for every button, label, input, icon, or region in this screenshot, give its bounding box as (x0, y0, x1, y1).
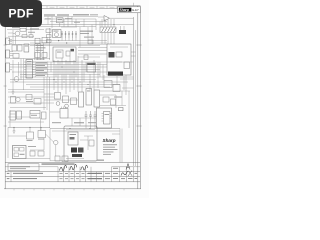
wire drop x56 (55, 16, 57, 17)
pin col line a (34, 62, 36, 78)
resistor R10 (38, 131, 46, 138)
wire y160.5 (50, 160, 96, 162)
pin drop s5 (67, 62, 69, 75)
tb note text (42, 163, 75, 164)
label mid row2 (52, 122, 61, 123)
pin label row 4 (36, 70, 44, 71)
wire bundle x40 (40, 44, 42, 61)
tb drawing no (88, 173, 102, 174)
ic U17 dark (78, 148, 84, 153)
tb cell texts row2 d (76, 177, 79, 180)
wire drop x114 (113, 19, 115, 27)
wire y112 mid (50, 111, 60, 113)
wire drop x52 (51, 16, 53, 28)
resistor R17 (34, 99, 41, 105)
tb col x58 (57, 167, 59, 182)
connector CN1 (57, 18, 64, 23)
wire y57 right (78, 56, 100, 58)
wire x120 low (119, 129, 121, 163)
pin drop s1 (50, 62, 52, 72)
wire bottom link (26, 158, 50, 160)
wire x10 low (9, 110, 11, 127)
node J6 (29, 127, 30, 128)
ic U15 (68, 132, 78, 145)
ic U12 (94, 90, 100, 107)
module box B1 (107, 44, 131, 75)
pin drop s8 (83, 65, 85, 83)
wire U3 out (110, 17, 134, 19)
U14 pins (62, 107, 66, 109)
top rev strip dividers (47, 6, 117, 9)
wire drop x100 (99, 22, 101, 28)
cluster C6 (111, 99, 116, 105)
tb col x126.5 (126, 167, 128, 182)
module box B2 (64, 126, 97, 161)
wire mid bus 1 (8, 40, 107, 42)
label under badge (12, 26, 20, 29)
CN4 pin3 (10, 69, 12, 71)
transistor Q7 (16, 97, 20, 101)
wire bundle x43 (43, 44, 45, 61)
wire y118 mid (68, 117, 96, 119)
resistor R4 (55, 93, 61, 100)
module box B4 (53, 30, 62, 38)
tb cell t2 (113, 173, 118, 174)
module box B5 (53, 47, 76, 62)
transistor Q6 (54, 140, 58, 144)
wire x26 vert top (26, 27, 28, 35)
B2 wire (84, 135, 93, 137)
node J9 (89, 128, 90, 129)
wire comb drop b (104, 33, 106, 45)
R9 label (27, 139, 33, 142)
wire U3 in (98, 16, 104, 18)
header logo fill (119, 8, 132, 12)
tb cell texts c121 r2 (121, 178, 125, 179)
signature S2 (70, 164, 77, 170)
label CN1 pins (58, 18, 63, 21)
wire hbus y77 (20, 76, 134, 78)
resistor R18 (47, 35, 52, 38)
tb row line b (5, 171, 140, 173)
ic U10 (79, 92, 84, 107)
wire x80 drop (79, 118, 81, 126)
tb col x133.5 (133, 167, 135, 182)
wire drop x111 (110, 19, 112, 27)
wire x40 down (40, 118, 42, 131)
Q2 row hatch (102, 28, 116, 33)
wire bundle x34 (34, 44, 36, 60)
pin drop s7 (75, 62, 77, 77)
pin drop s6 (71, 65, 73, 80)
label top extra b (65, 17, 72, 20)
wire cap drop c (94, 120, 96, 129)
diode D1 mark (61, 33, 63, 35)
wire vbus x54 (53, 60, 55, 90)
B2 wire 2 (87, 136, 89, 150)
TB1 label (20, 154, 25, 155)
node J8 (69, 128, 70, 129)
relay K1 (10, 111, 16, 120)
B2 inner wire a (66, 129, 95, 131)
CN2 pin 2 (10, 41, 12, 43)
maker address line4 (103, 151, 114, 154)
pin drop s10 (99, 62, 101, 77)
B5 inner ic label (57, 51, 62, 54)
wire y79 right (120, 78, 134, 80)
wire y136 left (8, 135, 26, 137)
U8 top strip (87, 63, 95, 65)
wire drop x64 (63, 19, 65, 27)
wire x129 down2 (128, 91, 130, 128)
transistor Q5 (65, 104, 69, 108)
diode D3 mark (68, 33, 70, 35)
tb cell t6 (135, 178, 138, 179)
B1 inner wire (110, 46, 128, 48)
tb small note (97, 160, 104, 161)
resistor R1 (20, 28, 26, 31)
tb row line a (5, 166, 58, 168)
wire bundle x37 (37, 44, 39, 60)
wire x21 left vert (20, 59, 22, 81)
U9 label2 (27, 63, 32, 66)
wire D drops (62, 38, 76, 41)
label tb1 side (28, 145, 36, 148)
relay K1 inner (10, 113, 16, 115)
tb cell texts row2 (60, 177, 63, 180)
label right mid (114, 97, 122, 98)
wire vbus x62 (61, 58, 63, 90)
wire x18 mid (18, 62, 20, 77)
capacitor C9 (89, 111, 92, 120)
tb text r1c2 (13, 173, 43, 174)
wire R1 right (26, 29, 44, 31)
wire drop x96 (95, 19, 97, 30)
wire vbus x58 (57, 60, 59, 92)
diode D5 (75, 31, 77, 38)
capacitor C7 (42, 112, 47, 119)
wire vbus x70 (69, 56, 71, 92)
tb cell t5 (135, 173, 138, 174)
wire CN1 drop (59, 23, 61, 27)
wire x47 down (46, 77, 48, 110)
tb cell t4 (128, 178, 133, 179)
node J5 (13, 127, 14, 128)
tb cell texts c98 r2 (98, 178, 102, 179)
capacitor C3 (42, 52, 47, 57)
ic U14 (60, 109, 68, 119)
wire right drop (115, 95, 117, 108)
crystal X1 (119, 108, 124, 111)
pin label row 5 (36, 72, 47, 73)
wire hbus y64.5 (12, 64, 107, 66)
U15 label (70, 134, 77, 135)
wire y105 right (100, 105, 126, 107)
R10 label (38, 138, 44, 141)
pin col line b (47, 62, 49, 78)
wire vert x80 top (79, 27, 81, 48)
wire vbus x66 (65, 60, 67, 94)
tb right row line (112, 166, 141, 168)
tb cell t1 (113, 168, 118, 169)
CN3 pin 2 (10, 53, 13, 55)
stamp text row2 (10, 167, 26, 170)
wire hbus y82 (10, 81, 128, 83)
bottom ticks (14, 189, 124, 191)
connector CN3 (6, 50, 10, 58)
transistor Q3 (14, 77, 19, 82)
B5 mark dark (71, 49, 75, 52)
svg-text:PDF: PDF (8, 7, 33, 21)
resistor R11 (55, 156, 60, 161)
U11 label (87, 90, 91, 93)
ground G1 (12, 90, 15, 94)
connector CN4 (6, 63, 10, 72)
label center row (74, 122, 84, 123)
wire top y19 (44, 18, 96, 20)
wire x44 low (43, 138, 45, 150)
resistor R16 (26, 95, 32, 100)
tb cell texts c105 r1 (105, 173, 110, 174)
CN2 pins (10, 39, 12, 41)
wire x13 mid (12, 60, 14, 90)
pin label row 3 (36, 67, 47, 68)
ic U16 dark (71, 148, 77, 153)
resistor R7 (104, 81, 112, 88)
label left bottom (26, 100, 33, 103)
wire vbus x74 (73, 60, 75, 90)
tb col x11 (10, 172, 12, 182)
transistor Q1 (15, 31, 20, 36)
ic U2 (24, 44, 29, 52)
tb sig col 1 (63, 167, 65, 182)
tb sig col 4 (79, 167, 81, 182)
stamp box (8, 164, 39, 171)
wire Q1 base (13, 33, 15, 35)
diode D2 mark (65, 33, 67, 35)
tb cell texts row1 c (71, 172, 74, 175)
wire y131 (52, 130, 120, 132)
frame tick right 3 (136, 125, 141, 127)
wire y50 right (78, 50, 107, 52)
U13 inner line (30, 113, 40, 115)
ic U11 (86, 89, 92, 106)
wire x122 down2 (121, 91, 123, 106)
tb cell texts row2 b (65, 177, 68, 180)
wire vert x13 (12, 30, 14, 44)
maker address line5 (103, 153, 111, 156)
U9 inner row c (26, 71, 33, 73)
capacitor C10 (94, 111, 97, 120)
FRAME (4, 6, 6, 189)
wire y107 (10, 107, 46, 109)
diode D3 (68, 31, 70, 38)
label mode row (30, 28, 39, 29)
wire hbus y84.5 (26, 84, 120, 86)
pin label row 2 (36, 65, 45, 66)
U13 label (31, 114, 37, 117)
ground G2 (13, 127, 16, 133)
ic U6 (116, 52, 122, 57)
connector CN2 (6, 38, 10, 45)
wire drop x68 (67, 16, 69, 27)
wire y47.5 right (78, 47, 107, 49)
diode D5 mark (75, 33, 77, 35)
pin drop s9 (85, 62, 87, 72)
label POWER (73, 14, 89, 15)
label top extra a (45, 17, 51, 20)
tb cell texts row2 c (71, 177, 74, 180)
svg-text:Sharp: Sharp (120, 8, 129, 12)
ic U8 (87, 63, 96, 72)
tb drawing no2 (88, 178, 102, 179)
U4 stub2 (123, 26, 125, 30)
frame tick left 3 (4, 125, 7, 127)
diode D4 mark (72, 33, 74, 35)
B2 inner wire b (80, 139, 88, 141)
wire y24.5 ext (107, 24, 134, 26)
wire vbus x94 (93, 60, 95, 90)
resistor R8 (113, 85, 120, 92)
capacitor C1 (88, 40, 93, 44)
tb text r2c2 (13, 178, 37, 179)
wire hbus y87 (30, 86, 110, 88)
wire y117 low (8, 116, 30, 118)
wire y89.5 (8, 89, 44, 91)
wire y54 right (78, 53, 107, 55)
wire y94 (44, 93, 55, 95)
module box B3 (97, 108, 112, 128)
pin drop s2 (55, 65, 57, 78)
ic U18 strip (72, 154, 82, 157)
wire vbus x98 (97, 62, 99, 88)
TB1 cell 2 (20, 148, 25, 152)
wire y91 right (100, 90, 130, 92)
node row d (80, 82, 81, 83)
stamp text (10, 166, 30, 167)
tb text r1c1 (7, 173, 10, 174)
maker address line1 (103, 143, 117, 146)
resistor R5 (63, 96, 69, 103)
arrow mark b (66, 42, 68, 44)
U2 label (25, 45, 28, 48)
tb col x111.5 (111, 167, 113, 182)
diode D1 (61, 31, 63, 38)
wire x44 down (43, 77, 45, 110)
node J2 (73, 71, 74, 72)
wire x49 down (49, 77, 51, 128)
node J3 (89, 81, 90, 82)
wire comb drop c (107, 33, 109, 45)
rev strip marks (50, 6, 115, 8)
transistor array Q2 row (100, 27, 116, 33)
node row a (56, 82, 57, 83)
resistor R9 (27, 132, 34, 139)
wire drop x105 (104, 19, 106, 27)
tb col x119.5 (119, 167, 121, 182)
arrow mark a (58, 40, 60, 42)
switch SW1 (17, 111, 22, 119)
U9 inner row a (26, 65, 33, 67)
capacitor C8 (85, 111, 88, 120)
wire y150 left (30, 149, 44, 151)
B2 inner wire c (66, 158, 84, 160)
resistor R12 (62, 156, 68, 162)
ic U19 (104, 112, 111, 125)
box cluster b5 (12, 45, 17, 51)
wire right link (100, 94, 116, 96)
wire x23.5 left vert (23, 59, 25, 91)
wire top bus 2 (8, 26, 96, 28)
wire x104 down (103, 75, 105, 81)
tb x mark (128, 171, 132, 177)
label D row values (80, 31, 93, 32)
node J4 (53, 79, 54, 80)
wire col x49 (49, 28, 51, 60)
TB1 cell 1 (14, 148, 19, 152)
frame centre tick top (133, 3, 135, 6)
ic U7 dark bar (108, 72, 123, 76)
tb cell texts row1 e (82, 172, 85, 175)
ic U9 tall (26, 60, 33, 79)
wire vbus x90 (89, 74, 91, 90)
B1 inner wire 2 (110, 61, 122, 63)
ic U13 (30, 111, 40, 119)
frame tick left 1 (4, 44, 7, 46)
transistor Q4 (56, 102, 60, 106)
CN3 pin 1 (10, 51, 13, 53)
wire hbus y72 (12, 71, 108, 73)
label under badge b (28, 31, 35, 34)
tb sig col 5 (85, 167, 87, 182)
wire drop x48 (47, 16, 49, 24)
node row c (72, 82, 73, 83)
signature S1 (60, 165, 67, 171)
pin text a (36, 44, 44, 47)
tb scribble A (126, 164, 130, 170)
wire hbus y79.5 (10, 79, 96, 81)
tb cell texts c105 r2 (105, 178, 110, 179)
svg-text:E-1/7: E-1/7 (132, 8, 139, 12)
pin text c (36, 49, 44, 52)
wire y100 (44, 99, 78, 101)
resistor R3 (42, 37, 47, 43)
U9 label (27, 60, 32, 63)
pin drop s3 (59, 62, 61, 75)
terminal box TB1 (13, 146, 27, 159)
node row e (88, 84, 89, 85)
resistor R2 (35, 38, 40, 44)
resistor R13 (46, 29, 51, 33)
resistor R20 (38, 151, 44, 156)
tb top line (5, 162, 140, 164)
wire y122 (8, 121, 44, 123)
capacitor C12 (84, 55, 88, 60)
tb cell texts row1 f (87, 172, 90, 175)
wire B1 out y56 (131, 55, 136, 57)
wire y97 left (8, 96, 54, 98)
U4 stubs (120, 26, 122, 30)
label TUNER (57, 14, 69, 15)
label top extra c (90, 13, 98, 16)
wire drop xq102 (101, 19, 103, 27)
tb text r2c1 (7, 178, 10, 179)
frame tick left 2 (4, 85, 7, 87)
wire q6 drop (55, 145, 57, 156)
tb sig col 3 (74, 167, 76, 182)
wire hbus y74.5 (20, 74, 100, 76)
wire y141 link (46, 134, 54, 142)
